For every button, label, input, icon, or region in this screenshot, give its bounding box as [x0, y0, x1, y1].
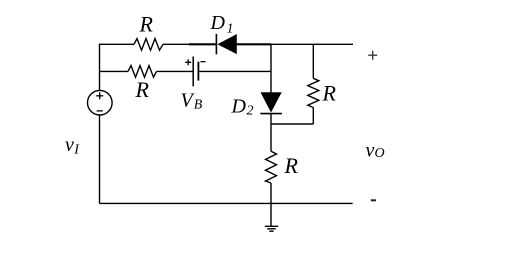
- resistor R1 (top horizontal): [134, 39, 163, 51]
- svg-text:1: 1: [227, 22, 234, 37]
- wire: source bottom to bottom rail: [99, 115, 101, 203]
- svg-text:B: B: [194, 98, 203, 113]
- node + (output positive terminal): [368, 51, 377, 60]
- svg-text:R: R: [322, 81, 337, 106]
- diode D1 triangle (points left): [218, 35, 237, 54]
- battery plus mark: [185, 59, 191, 65]
- svg-text:v: v: [65, 134, 74, 156]
- wire: right R branch top: [312, 44, 314, 78]
- wire: down to bottom R: [270, 124, 272, 151]
- svg-text:D: D: [231, 96, 247, 118]
- diode D2 cathode bar: [260, 113, 282, 115]
- wire: ground stem: [270, 203, 272, 226]
- wire: D2 branch top: [270, 44, 272, 93]
- wire: R1 to D1 thin part: [163, 43, 189, 45]
- source vI circle: [88, 90, 113, 115]
- diode D1 cathode bar: [215, 34, 217, 54]
- wire: second row left to R2: [100, 70, 129, 72]
- wire: bottom rail: [100, 202, 353, 204]
- node - (output negative terminal): [371, 199, 376, 201]
- svg-text:D: D: [210, 12, 226, 34]
- wire: D2 to joining wire: [270, 114, 272, 124]
- svg-text:v: v: [366, 140, 375, 162]
- svg-text:R: R: [135, 77, 150, 102]
- battery VB short plate: [197, 62, 199, 81]
- resistor R (right vertical): [308, 78, 319, 107]
- ground: [265, 226, 278, 231]
- wire: D1 right lead (thick): [237, 43, 272, 45]
- wire: top rail to output +: [271, 43, 353, 45]
- svg-text:R: R: [139, 12, 154, 37]
- wire: top rail from left corner to R1: [100, 44, 135, 71]
- svg-text:O: O: [375, 146, 385, 161]
- battery minus mark: [201, 61, 206, 63]
- battery VB long plate: [192, 57, 194, 87]
- resistor R2 (second horizontal): [128, 66, 157, 78]
- wire: left vertical to source top: [99, 71, 101, 90]
- wire: D1 anode lead (thick): [189, 43, 216, 45]
- wire: bottom R to bottom rail: [270, 183, 272, 203]
- source minus mark: [97, 110, 103, 112]
- source plus mark: [96, 92, 103, 99]
- svg-text:2: 2: [247, 104, 254, 119]
- diode D2 triangle (points down): [261, 93, 281, 112]
- wire: joining wire: [271, 123, 313, 125]
- wire: battery to junction: [198, 70, 271, 72]
- wire: right R to joining wire: [312, 108, 314, 125]
- wire: R2 to battery: [157, 70, 194, 72]
- svg-text:R: R: [284, 153, 299, 178]
- resistor R (bottom vertical): [266, 151, 277, 183]
